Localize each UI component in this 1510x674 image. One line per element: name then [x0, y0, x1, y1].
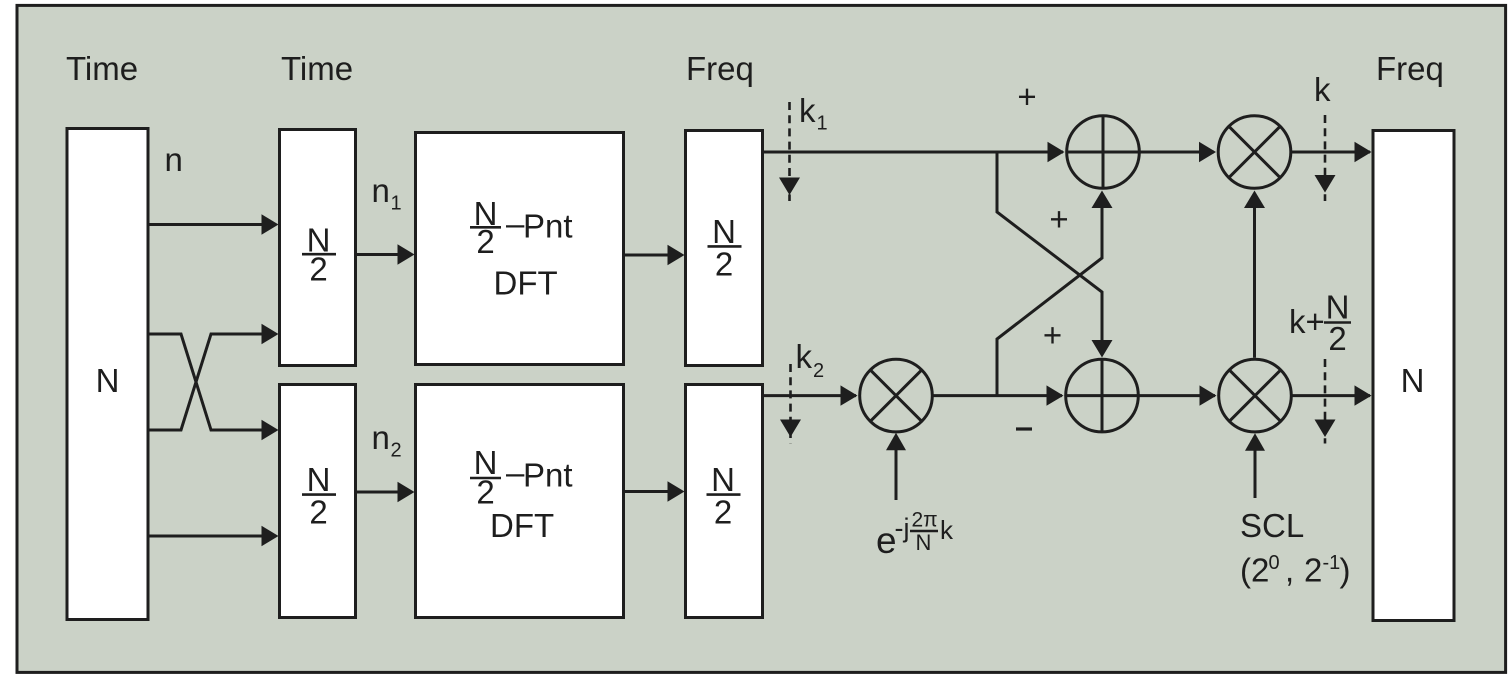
svg-text:2: 2	[391, 440, 402, 462]
svg-text:n: n	[372, 172, 390, 209]
svg-text:n: n	[165, 141, 183, 178]
svg-text:N: N	[307, 461, 331, 498]
svg-text:): )	[1340, 552, 1351, 589]
svg-text:2: 2	[476, 474, 494, 511]
svg-text:0: 0	[1269, 552, 1280, 574]
svg-text:+: +	[1017, 78, 1036, 115]
svg-text:N: N	[1401, 362, 1425, 399]
svg-text:e: e	[876, 520, 897, 561]
svg-text:2: 2	[813, 360, 824, 382]
svg-text:+: +	[1049, 201, 1068, 238]
svg-text:2: 2	[309, 494, 327, 531]
svg-text:DFT: DFT	[490, 507, 554, 544]
svg-text:2: 2	[1304, 552, 1322, 589]
svg-text:k: k	[796, 338, 813, 375]
svg-text:k: k	[1314, 71, 1331, 108]
svg-text:Time: Time	[66, 50, 138, 87]
svg-text:-j: -j	[895, 513, 910, 543]
svg-text:Pnt: Pnt	[523, 457, 573, 494]
svg-text:2π: 2π	[912, 509, 938, 532]
svg-text:Freq: Freq	[686, 50, 754, 87]
svg-text:n: n	[372, 419, 390, 456]
svg-text:2: 2	[309, 251, 327, 288]
svg-text:k: k	[799, 92, 816, 129]
svg-text:Pnt: Pnt	[523, 208, 573, 245]
svg-text:Freq: Freq	[1376, 50, 1444, 87]
svg-text:N: N	[916, 530, 932, 555]
svg-text:DFT: DFT	[494, 265, 558, 302]
svg-text:N: N	[96, 362, 120, 399]
svg-text:2: 2	[714, 494, 732, 531]
svg-text:2: 2	[1328, 320, 1346, 357]
svg-text:2: 2	[476, 223, 494, 260]
svg-text:SCL: SCL	[1240, 507, 1304, 544]
svg-text:Time: Time	[281, 50, 353, 87]
svg-text:N: N	[711, 461, 735, 498]
svg-text:(2: (2	[1240, 552, 1269, 589]
svg-text:+: +	[1043, 317, 1062, 354]
svg-text:N: N	[712, 213, 736, 250]
svg-text:2: 2	[715, 246, 733, 283]
svg-text:k: k	[940, 515, 954, 545]
svg-text:k+: k+	[1289, 303, 1325, 340]
svg-text:1: 1	[817, 113, 828, 135]
svg-text:1: 1	[391, 193, 402, 215]
svg-text:-1: -1	[1323, 552, 1341, 574]
svg-text:,: ,	[1285, 552, 1294, 589]
